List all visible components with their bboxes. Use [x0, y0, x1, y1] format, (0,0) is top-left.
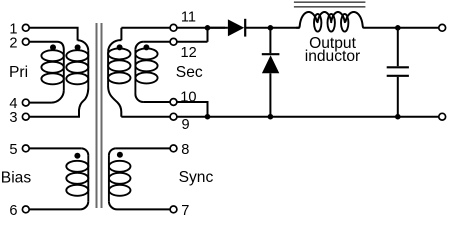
wire to output terminal top [398, 27, 439, 29]
diode D1 triangle [228, 19, 244, 36]
secondary left winding spine [107, 52, 109, 87]
terminal 2 [22, 38, 29, 45]
sync winding spine [108, 155, 110, 201]
wire junction to diode D1 [208, 27, 228, 29]
svg-text:2: 2 [9, 35, 17, 51]
terminal 5 [22, 145, 29, 152]
junction top rail at cap [395, 25, 401, 31]
inductor core line bottom [294, 6, 366, 8]
terminal 8 [170, 145, 177, 152]
terminal 10 [170, 99, 177, 106]
transformer core line right [101, 23, 103, 208]
wire terminal 12 horizontal [143, 41, 207, 43]
wire bias winding to terminal 6 [29, 208, 80, 210]
svg-text:11: 11 [181, 10, 196, 26]
wire through terminal 9 to bottom junction [121, 116, 207, 118]
svg-text:9: 9 [182, 117, 190, 133]
svg-text:inductor: inductor [305, 48, 360, 65]
svg-text:Bias: Bias [1, 170, 32, 187]
secondary right winding entry corner [135, 42, 143, 50]
wire terminal 8 to sync winding [116, 147, 170, 149]
capacitor top plate [387, 66, 409, 68]
inductor core line top [294, 1, 366, 3]
svg-text:Sync: Sync [179, 169, 214, 186]
polarity dot secondary right [143, 44, 149, 50]
primary right winding entry curl [78, 40, 89, 51]
wire terminal 12 up to junction [207, 28, 209, 42]
svg-text:12: 12 [181, 45, 197, 61]
wire secondary left winding top vertical [120, 28, 122, 40]
diode D2 cathode bar [262, 53, 280, 55]
polarity dot bias [74, 153, 80, 159]
svg-text:6: 6 [9, 203, 17, 216]
bias winding [66, 161, 88, 196]
sync winding exit corner [109, 201, 117, 209]
wire terminal 2 to primary left winding [29, 41, 57, 43]
polarity dot sync [117, 152, 123, 158]
svg-text:7: 7 [181, 203, 189, 216]
junction secondary top [205, 25, 211, 31]
primary right winding exit curve [29, 89, 88, 117]
output inductor humps [296, 12, 366, 28]
terminal 6 [22, 206, 29, 213]
diode D1 cathode bar [244, 19, 246, 37]
bias winding exit corner [80, 201, 88, 209]
terminal 12 [170, 38, 177, 45]
wire sync winding to terminal 7 [117, 208, 170, 210]
terminal 9 [170, 113, 177, 120]
svg-text:5: 5 [9, 142, 17, 158]
wire primary left winding to terminal 4 [29, 102, 51, 104]
secondary right winding exit corner [135, 94, 143, 102]
primary left winding entry curve [57, 42, 64, 50]
sync winding entry corner [109, 148, 116, 155]
primary winding right column [66, 50, 88, 84]
transformer core line left [96, 23, 98, 208]
terminal 11 [170, 24, 177, 31]
svg-text:Sec: Sec [176, 64, 203, 81]
junction bottom rail at D2 [268, 114, 274, 120]
polarity dot primary right [75, 44, 81, 50]
wire inductor to output junction [366, 27, 398, 29]
secondary winding left column [108, 48, 130, 83]
capacitor bottom plate [387, 75, 409, 77]
svg-text:8: 8 [181, 142, 189, 158]
wire terminal 1 to primary right winding top [29, 28, 77, 41]
bias winding spine [87, 155, 89, 201]
secondary left winding entry curl [108, 40, 121, 52]
bottom rail wire [208, 116, 439, 118]
secondary left winding exit curve [108, 87, 121, 117]
wire diode D1 to inductor [245, 27, 299, 29]
wire capacitor to bottom rail [397, 77, 399, 117]
junction bottom rail at cap [395, 114, 401, 120]
wire diode D2 to bottom rail [269, 73, 271, 116]
primary winding left column [41, 50, 63, 84]
junction secondary bottom [205, 114, 211, 120]
svg-text:10: 10 [180, 90, 196, 106]
wire secondary top to junction and diode [121, 27, 225, 29]
secondary right winding spine [134, 50, 136, 94]
terminal 3 [22, 113, 29, 120]
primary right winding spine [87, 51, 89, 89]
terminal 7 [170, 206, 177, 213]
output terminal bottom [439, 113, 446, 120]
primary left winding spine [63, 50, 65, 90]
polarity dot secondary left [117, 44, 123, 50]
wire terminal 5 to bias winding [29, 147, 81, 149]
output inductor loops [314, 14, 348, 32]
wire through terminal 10 down to bottom junction [143, 102, 207, 117]
svg-text:Pri: Pri [9, 64, 28, 81]
terminal 4 [22, 99, 29, 106]
output terminal top [439, 24, 446, 31]
terminal 1 [22, 24, 29, 31]
diode D2 triangle [262, 55, 279, 73]
wire top rail to capacitor [397, 28, 399, 66]
svg-text:3: 3 [9, 110, 17, 126]
primary left winding exit arc [51, 90, 64, 103]
junction top rail at D2 [268, 25, 274, 31]
polarity dot primary left [50, 44, 56, 50]
wire junction down to diode D2 [269, 28, 271, 53]
sync winding [109, 161, 131, 196]
bias winding entry corner [81, 148, 88, 155]
secondary winding right column [135, 48, 157, 83]
